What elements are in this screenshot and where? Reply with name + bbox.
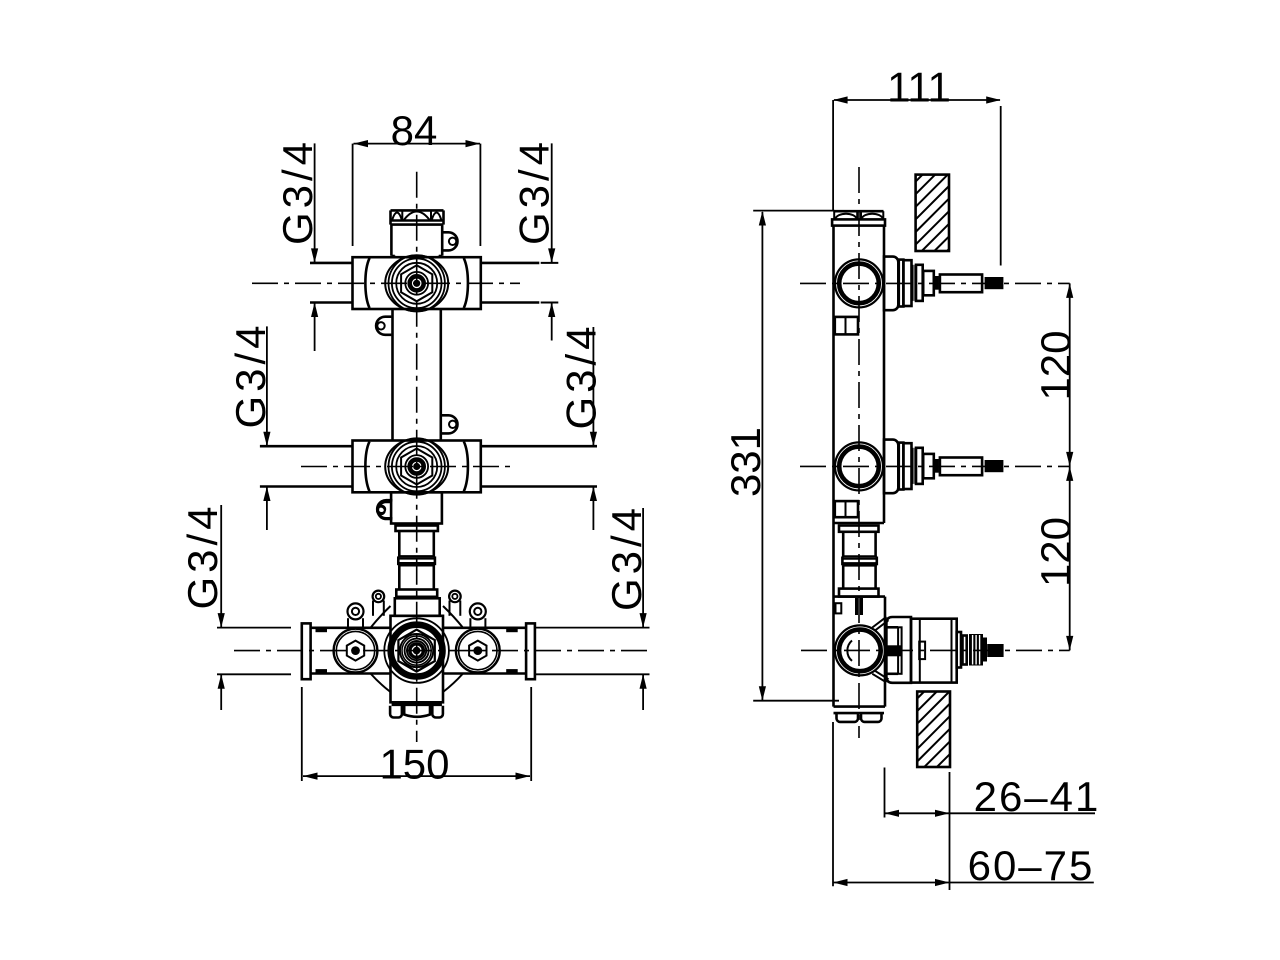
60-75 dim line: [833, 882, 1094, 884]
middle valve left mounting ear: [377, 500, 392, 518]
G3/4 bottom-right leader: [642, 508, 644, 628]
middle valve right mounting ear: [441, 415, 458, 433]
top valve body rect: [353, 257, 481, 309]
waist curves bottom body: [371, 606, 464, 692]
svg-text:G3/4: G3/4: [274, 138, 321, 245]
side cartridge shoulder chamfers: [872, 617, 888, 683]
middle valve right pipe: [481, 445, 597, 448]
bottom left pipe: [311, 626, 391, 629]
bottom right flange: [526, 623, 535, 679]
bottom inner-left ear: [373, 591, 385, 603]
coupling pipe lower: [398, 565, 401, 589]
coupling flange upper: [396, 526, 438, 532]
bottom body foot tabs: [390, 706, 402, 718]
side middle valve gland stack and spindle: [884, 440, 898, 494]
coupling ring: [398, 555, 435, 558]
side cartridge body: [911, 619, 957, 683]
side coupling pipe lower: [842, 565, 845, 588]
side top valve centerline: [800, 282, 1070, 284]
bottom body square: [391, 616, 444, 703]
side middle valve circle: [835, 442, 883, 490]
side body outline: [832, 226, 835, 707]
side coupling flange upper: [839, 526, 879, 532]
side cartridge block: [886, 617, 911, 683]
middle valve centerline: [301, 466, 516, 468]
bottom left port circles: [334, 629, 378, 673]
svg-text:60–75: 60–75: [968, 842, 1095, 889]
svg-text:150: 150: [379, 741, 449, 788]
bottom outer-left ear: [348, 603, 364, 619]
150 dim extension lines: [301, 687, 303, 781]
top valve left pipe stub: [310, 262, 353, 265]
riser pipe between top and middle valves: [391, 309, 394, 441]
coupling pipe upper: [398, 531, 401, 556]
side coupling pipe upper: [842, 532, 845, 557]
bottom outer-right ear: [470, 603, 486, 619]
side bottom valve circle: [835, 625, 885, 675]
side cartridge neck: [885, 626, 898, 629]
front view vertical centerline: [416, 172, 418, 742]
bottom valve centerline: [234, 650, 648, 652]
top valve centerline: [252, 282, 520, 284]
H-bracket below top valve: [835, 317, 858, 335]
G3/4 top-right leader: [551, 143, 553, 263]
coupling flange lower: [396, 590, 437, 597]
svg-text:120: 120: [1032, 330, 1079, 400]
middle valve boss ellipse: [385, 439, 448, 495]
bottom body foot line: [392, 703, 442, 706]
G3/4 mid-left leader: [266, 326, 268, 446]
top valve concentric rings: [389, 255, 445, 311]
union nut block: [391, 492, 442, 523]
bottom center rings: [384, 618, 449, 683]
svg-text:84: 84: [391, 107, 438, 154]
side bottom body top details: [855, 598, 858, 615]
top valve right pipe stub: [481, 262, 540, 265]
svg-text:331: 331: [722, 427, 769, 497]
84 dim line: [354, 143, 481, 145]
union nut left ear: [378, 502, 391, 519]
middle valve body end arcs: [365, 442, 468, 492]
84 dim extension lines: [352, 144, 354, 246]
H-bracket below middle valve: [835, 501, 858, 517]
bottom right port circles: [456, 629, 500, 673]
svg-text:G3/4: G3/4: [603, 504, 650, 611]
thread marks: [316, 628, 328, 632]
top valve right mounting ear: [442, 232, 457, 250]
bottom inner-right ear: [449, 591, 461, 603]
bottom body top block: [395, 598, 440, 616]
331 dim line: [761, 212, 763, 700]
111 dim line: [834, 99, 1000, 101]
331 dim extension lines: [753, 210, 834, 212]
G3/4 mid-right leader: [592, 327, 594, 446]
top valve stem: [390, 225, 393, 256]
26-41 dim line: [885, 812, 1096, 814]
svg-text:G3/4: G3/4: [179, 502, 226, 609]
middle valve left pipe: [260, 445, 353, 448]
120 dim line: [1069, 283, 1071, 650]
bottom left flange: [302, 623, 311, 679]
side cartridge washers: [957, 632, 961, 668]
side top valve gland stack and spindle: [884, 257, 898, 311]
top valve boss ellipse: [385, 255, 448, 311]
side top valve circle: [835, 259, 883, 307]
upper wall hatch: [916, 175, 949, 251]
side coupling ring: [842, 555, 876, 558]
G3/4 top-left leader: [314, 143, 316, 263]
side bottom body block: [834, 595, 886, 598]
side middle valve centerline: [800, 465, 1070, 467]
150 dim line: [303, 775, 530, 777]
G3/4 bottom-left extension lines: [217, 627, 291, 629]
svg-text:G3/4: G3/4: [558, 322, 605, 429]
svg-text:G3/4: G3/4: [511, 138, 558, 245]
middle valve concentric rings: [389, 438, 445, 494]
svg-text:111: 111: [887, 64, 951, 111]
G3/4 bottom-right extension lines: [536, 627, 650, 629]
side cap (hex plug): [834, 210, 884, 213]
middle valve body rect: [353, 441, 481, 493]
bottom right pipe: [443, 626, 526, 629]
top valve cap (hex plug): [391, 209, 444, 212]
side coupling flange lower: [839, 589, 879, 597]
svg-text:26–41: 26–41: [974, 773, 1101, 820]
side foot: [834, 712, 885, 715]
svg-text:120: 120: [1032, 517, 1079, 587]
side cartridge knob: [969, 634, 983, 666]
side bottom valve centerline: [801, 649, 1070, 651]
top valve left mounting ear: [376, 317, 391, 335]
svg-text:G3/4: G3/4: [227, 321, 274, 428]
G3/4 bottom-left leader: [220, 505, 222, 628]
60-75 dim extension line: [832, 722, 834, 886]
side view vertical centerline: [858, 167, 860, 738]
111 dim extension lines: [832, 100, 834, 211]
top valve body end arcs: [365, 258, 468, 308]
side cartridge seal: [885, 645, 901, 656]
lower wall hatch: [917, 692, 950, 768]
side cartridge spindle tip: [987, 644, 1003, 657]
26-41 dim extension lines: [884, 768, 886, 818]
